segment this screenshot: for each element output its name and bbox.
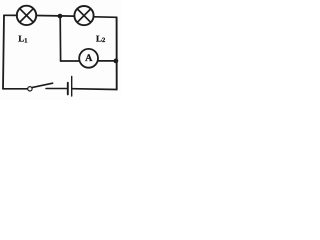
- wire top-middle: [37, 15, 74, 18]
- wire to ammeter left: [61, 60, 79, 62]
- wire ammeter right to node B: [98, 60, 116, 62]
- lamp L2: [74, 6, 93, 25]
- wire battery to right edge: [72, 88, 116, 91]
- wire left edge: [3, 15, 4, 89]
- wire bottom-left: [3, 88, 27, 90]
- wire right edge: [116, 17, 118, 89]
- switch S pivot circle: [28, 87, 32, 91]
- switch S blade: [32, 83, 52, 87]
- wire top-right: [95, 16, 117, 19]
- battery negative plate (short): [67, 83, 69, 95]
- lamp L1: [17, 6, 36, 25]
- node B junction dot: [114, 59, 119, 64]
- svg-text:A: A: [85, 53, 93, 64]
- ammeter A1 circle: [79, 49, 98, 68]
- wire switch to battery: [46, 88, 67, 90]
- wire top-left: [4, 14, 17, 16]
- wire middle vertical from node A: [59, 16, 61, 61]
- battery positive plate (long): [71, 77, 73, 97]
- node A junction dot: [58, 14, 63, 19]
